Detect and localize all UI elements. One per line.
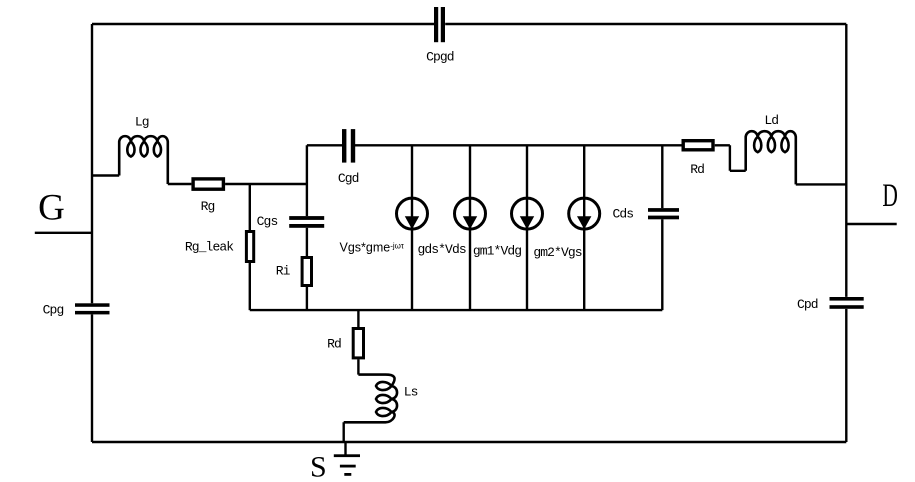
svg-text:Ld: Ld	[764, 113, 778, 128]
svg-text:gm1*Vdg: gm1*Vdg	[473, 244, 521, 259]
svg-text:Cds: Cds	[612, 206, 633, 221]
svg-text:Lg: Lg	[135, 115, 149, 130]
svg-text:Rd: Rd	[690, 162, 704, 177]
svg-text:gm2*Vgs: gm2*Vgs	[533, 245, 581, 260]
svg-text:Rg: Rg	[201, 199, 215, 214]
svg-text:Cpgd: Cpgd	[426, 49, 454, 64]
svg-text:Cpd: Cpd	[797, 297, 818, 312]
svg-text:Ri: Ri	[276, 263, 291, 278]
svg-text:S: S	[310, 451, 327, 482]
svg-text:Cgd: Cgd	[338, 171, 359, 186]
svg-text:Cgs: Cgs	[257, 214, 278, 229]
svg-text:gds*Vds: gds*Vds	[417, 242, 465, 257]
svg-text:Ls: Ls	[404, 384, 418, 399]
svg-text:Rg_leak: Rg_leak	[185, 240, 234, 255]
svg-text:D: D	[882, 178, 898, 214]
svg-text:Rd: Rd	[327, 336, 341, 351]
svg-text:Cpg: Cpg	[43, 302, 64, 317]
svg-text:G: G	[38, 187, 65, 228]
